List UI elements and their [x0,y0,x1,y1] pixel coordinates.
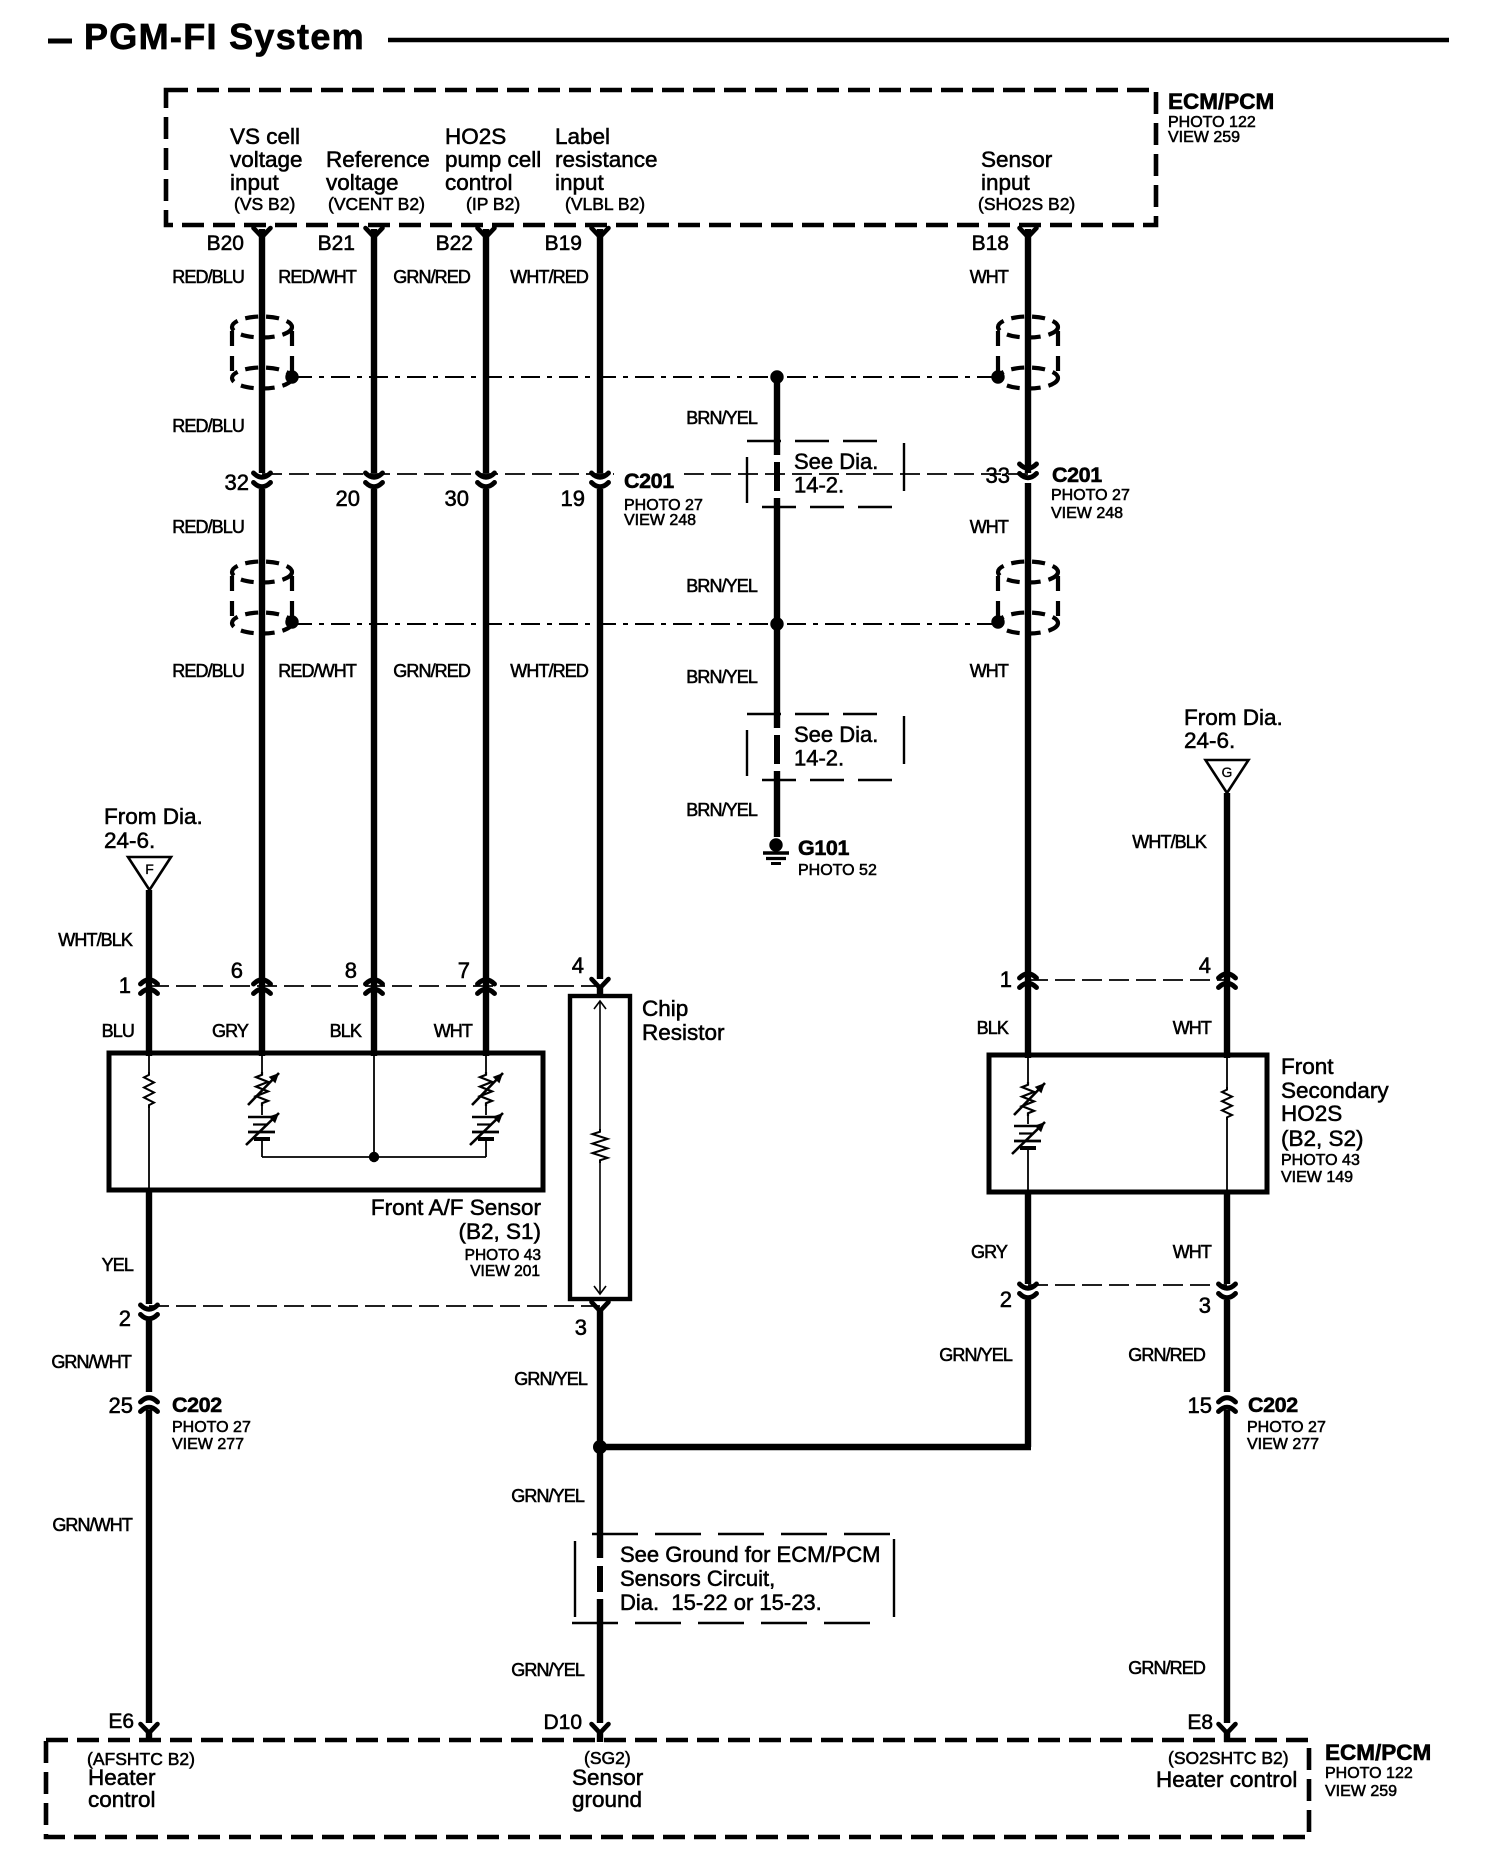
svg-text:ground: ground [572,1787,642,1812]
wire GRN/YEL (chip resistor to ground node) [597,1311,603,1447]
svg-text:Dia. 15-22 or 15-23.: Dia. 15-22 or 15-23. [620,1590,822,1615]
svg-text:See Ground for ECM/PCM: See Ground for ECM/PCM [620,1542,880,1567]
noise suppressor cylinder on B18 wire lower [998,562,1058,583]
svg-text:RED/BLU: RED/BLU [172,267,244,287]
svg-text:WHT/BLK: WHT/BLK [1132,832,1207,852]
wire B20 RED/BLU (ECM to C201) [259,229,265,473]
svg-text:RED/WHT: RED/WHT [278,267,357,287]
svg-text:PHOTO 27: PHOTO 27 [1051,487,1130,504]
wire B18 WHT (C201 to sensor conn) [1025,483,1031,1058]
connector C201 row (dashed) [262,473,614,475]
wire B18 WHT (ECM to C201) [1025,229,1031,473]
svg-text:(SHO2S B2): (SHO2S B2) [978,194,1075,214]
svg-text:WHT: WHT [970,517,1009,537]
svg-text:VIEW 201: VIEW 201 [470,1263,540,1280]
svg-text:GRN/YEL: GRN/YEL [939,1345,1013,1365]
svg-text:Front: Front [1281,1054,1334,1079]
svg-text:HO2S: HO2S [1281,1101,1342,1126]
See Dia. 14-2. reference box lower [747,713,891,715]
svg-text:30: 30 [445,486,469,511]
svg-text:BRN/YEL: BRN/YEL [686,667,758,687]
svg-text:From Dia.: From Dia. [1184,705,1283,730]
svg-text:PHOTO 52: PHOTO 52 [798,862,877,879]
HO2S variable element [1027,1055,1029,1082]
svg-text:14-2.: 14-2. [794,473,844,498]
svg-text:(B2, S1): (B2, S1) [458,1219,541,1244]
svg-text:GRN/YEL: GRN/YEL [511,1660,585,1680]
svg-text:control: control [445,170,513,195]
svg-text:2: 2 [1000,1287,1012,1312]
svg-text:input: input [230,170,280,195]
A/F sensor variable element pin6 [261,1053,263,1072]
wire G WHT/BLK [1224,793,1230,1058]
svg-text:Reference: Reference [326,147,430,172]
svg-text:Secondary: Secondary [1281,1078,1389,1103]
svg-text:PHOTO 27: PHOTO 27 [172,1419,251,1436]
svg-text:input: input [555,170,605,195]
wire YEL (A/F sensor pin2 lead) [146,1190,152,1304]
svg-text:3: 3 [1199,1293,1211,1318]
svg-text:BLU: BLU [102,1021,134,1041]
svg-text:20: 20 [336,486,360,511]
svg-text:4: 4 [1199,953,1211,978]
svg-text:24-6.: 24-6. [1184,728,1235,753]
svg-text:voltage: voltage [230,147,303,172]
svg-text:E8: E8 [1187,1711,1213,1734]
A/F sensor variable element pin7 [485,1053,487,1072]
wire WHT from HO2S [1224,1192,1230,1284]
svg-text:Chip: Chip [642,996,688,1021]
See Ground reference box [574,1541,576,1617]
svg-text:GRN/YEL: GRN/YEL [511,1486,585,1506]
front A/F sensor connector row (dashed) [149,985,600,987]
svg-text:ECM/PCM: ECM/PCM [1325,1740,1431,1765]
svg-text:6: 6 [231,958,243,983]
wire GRN/YEL (box to D10) [597,1599,603,1723]
svg-text:4: 4 [572,953,584,978]
wire F WHT/BLK [146,890,152,1056]
chip resistor box [570,996,630,1299]
wire B21 RED/WHT (ECM to C201) [371,229,377,473]
svg-text:3: 3 [575,1315,587,1340]
svg-text:PGM-FI System: PGM-FI System [84,16,365,57]
svg-text:2: 2 [119,1306,131,1331]
svg-text:(VS B2): (VS B2) [234,194,295,214]
svg-text:25: 25 [109,1393,133,1418]
ECM/PCM bottom block (dashed) [46,1740,1309,1837]
svg-text:GRN/RED: GRN/RED [1128,1658,1206,1678]
svg-text:WHT: WHT [1173,1018,1212,1038]
HO2S connector row lower (dashed) [1028,1284,1227,1286]
svg-text:C201: C201 [1052,463,1102,487]
svg-text:RED/BLU: RED/BLU [172,661,244,681]
svg-text:WHT: WHT [1173,1242,1212,1262]
svg-text:RED/BLU: RED/BLU [172,416,244,436]
wire GRN/RED (C202 to E8) [1224,1410,1230,1723]
svg-text:32: 32 [225,470,249,495]
svg-text:Label: Label [555,124,610,149]
svg-text:voltage: voltage [326,170,399,195]
svg-text:1: 1 [1000,967,1012,992]
svg-text:resistance: resistance [555,147,658,172]
svg-text:WHT: WHT [970,267,1009,287]
svg-text:BRN/YEL: BRN/YEL [686,576,758,596]
noise suppressor cylinder on B18 wire upper [998,317,1058,338]
noise suppressor cylinder on B20 wire lower [232,562,292,583]
svg-text:From Dia.: From Dia. [104,804,203,829]
svg-text:14-2.: 14-2. [794,746,844,771]
svg-text:(SO2SHTC B2): (SO2SHTC B2) [1168,1748,1289,1768]
svg-text:WHT: WHT [970,661,1009,681]
front secondary HO2S box [989,1055,1267,1192]
wire GRY from HO2S [1025,1192,1031,1284]
svg-text:(B2, S2): (B2, S2) [1281,1126,1364,1151]
wire GRN/RED from HO2S pin 3 [1224,1300,1230,1392]
svg-text:B18: B18 [972,232,1009,255]
svg-text:F: F [145,861,154,877]
wire B19 WHT/RED (ECM to C201) [597,229,603,473]
ground junction node [593,1440,607,1454]
svg-text:B19: B19 [545,232,582,255]
svg-text:1: 1 [119,973,131,998]
svg-text:VIEW 248: VIEW 248 [624,512,696,529]
wire B19 WHT/RED (C201 to chip resistor) [597,489,603,979]
ECM/PCM top block (dashed) [166,90,1156,225]
svg-text:VIEW 277: VIEW 277 [172,1436,244,1453]
wire BRN/YEL shield drain [774,377,780,455]
svg-text:PHOTO 43: PHOTO 43 [465,1247,541,1264]
svg-text:(IP B2): (IP B2) [466,194,520,214]
svg-text:VIEW 149: VIEW 149 [1281,1169,1353,1186]
wire B22 GRN/RED (C201 to sensor conn) [483,489,489,1056]
svg-text:control: control [88,1787,156,1812]
front A/F sensor box [109,1053,543,1190]
wire GRN/YEL dashed through box [597,1566,603,1592]
wire B21 RED/WHT (C201 to sensor conn) [371,489,377,1056]
shield dash-dot link row 2 [293,623,997,625]
A/F sensor internal common wire pin8 [373,1053,375,1157]
svg-text:VIEW 248: VIEW 248 [1051,505,1123,522]
svg-text:8: 8 [345,958,357,983]
svg-text:15: 15 [1188,1393,1212,1418]
svg-text:VIEW 259: VIEW 259 [1325,1783,1397,1800]
svg-text:GRN/RED: GRN/RED [393,661,471,681]
svg-text:19: 19 [561,486,585,511]
svg-text:Sensor: Sensor [981,147,1053,172]
svg-text:BLK: BLK [330,1021,362,1041]
svg-text:G101: G101 [798,836,849,860]
svg-text:PHOTO 122: PHOTO 122 [1325,1765,1413,1782]
svg-text:GRY: GRY [212,1021,249,1041]
svg-text:GRN/RED: GRN/RED [393,267,471,287]
wire B22 GRN/RED (ECM to C201) [483,229,489,473]
svg-text:Resistor: Resistor [642,1020,725,1045]
svg-text:pump cell: pump cell [445,147,541,172]
svg-text:See Dia.: See Dia. [794,449,878,474]
svg-text:VS cell: VS cell [230,124,300,149]
svg-text:(VLBL B2): (VLBL B2) [565,194,645,214]
svg-text:WHT: WHT [434,1021,473,1041]
svg-text:B21: B21 [318,232,355,255]
svg-text:PHOTO 27: PHOTO 27 [1247,1419,1326,1436]
svg-text:RED/BLU: RED/BLU [172,517,244,537]
shield dash-dot link row 1 [293,376,997,378]
svg-text:ECM/PCM: ECM/PCM [1168,89,1274,114]
svg-text:C202: C202 [1248,1393,1298,1417]
svg-text:GRN/RED: GRN/RED [1128,1345,1206,1365]
svg-text:Front A/F Sensor: Front A/F Sensor [371,1195,542,1220]
chip resistor element R [593,1129,608,1163]
wire GRN/WHT (C202 to E6) [146,1410,152,1723]
svg-text:7: 7 [458,958,470,983]
svg-text:C202: C202 [172,1393,222,1417]
wire BRN/YEL shield drain middle [774,624,780,728]
A/F sensor internal junction node [369,1152,379,1162]
noise suppressor cylinder on B20 wire upper [232,317,292,338]
HO2S connector row upper (dashed) [1028,979,1227,981]
svg-text:WHT/RED: WHT/RED [510,661,589,681]
svg-text:HO2S: HO2S [445,124,506,149]
svg-text:B22: B22 [436,232,473,255]
svg-text:GRN/WHT: GRN/WHT [52,1515,133,1535]
svg-text:24-6.: 24-6. [104,828,155,853]
HO2S heater resistor [1226,1055,1228,1087]
svg-text:Sensors Circuit,: Sensors Circuit, [620,1566,775,1591]
svg-text:BLK: BLK [977,1018,1009,1038]
svg-text:B20: B20 [207,232,244,255]
svg-text:Heater control: Heater control [1156,1767,1297,1792]
wire GRN/YEL from HO2S pin 2 [1025,1300,1031,1447]
svg-text:See Dia.: See Dia. [794,722,878,747]
svg-text:VIEW 259: VIEW 259 [1168,129,1240,146]
svg-text:GRN/YEL: GRN/YEL [514,1369,588,1389]
svg-text:G: G [1222,764,1233,780]
wire B20 RED/BLU (C201 to sensor conn) [259,489,265,1056]
svg-text:33: 33 [986,463,1010,488]
svg-text:PHOTO 43: PHOTO 43 [1281,1152,1360,1169]
wire GRN/WHT (pin2 to C202) [146,1320,152,1392]
See Dia. 14-2. reference box upper [747,440,891,442]
svg-text:RED/WHT: RED/WHT [278,661,357,681]
svg-text:BRN/YEL: BRN/YEL [686,408,758,428]
svg-text:E6: E6 [108,1710,134,1733]
A/F sensor heater resistor (pin1 wire) [148,1053,150,1072]
ground G101 [769,838,782,851]
wire GRN/YEL (node to See Ground box) [597,1447,603,1558]
svg-text:D10: D10 [543,1711,582,1734]
title PGM-FI System [48,39,72,44]
junction node row1 on BRN/YEL [770,370,783,383]
svg-text:WHT/RED: WHT/RED [510,267,589,287]
svg-text:C201: C201 [624,469,674,493]
sensor lower connector row (dashed) [149,1305,600,1307]
chip resistor internal measurement line [599,1002,601,1129]
svg-text:input: input [981,170,1031,195]
svg-text:VIEW 277: VIEW 277 [1247,1436,1319,1453]
svg-text:WHT/BLK: WHT/BLK [58,930,133,950]
svg-text:GRY: GRY [971,1242,1008,1262]
svg-text:(VCENT B2): (VCENT B2) [328,194,425,214]
svg-text:BRN/YEL: BRN/YEL [686,800,758,820]
svg-text:GRN/WHT: GRN/WHT [51,1352,132,1372]
junction node row2 on BRN/YEL [770,617,783,630]
svg-text:YEL: YEL [102,1255,134,1275]
